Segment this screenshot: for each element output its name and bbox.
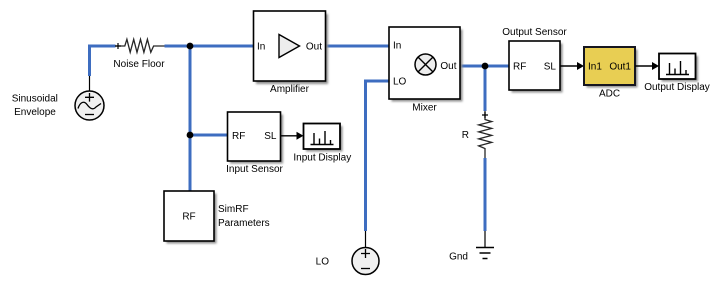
label R bbox=[462, 130, 469, 141]
wire main vertical to SimRF bbox=[189, 46, 192, 191]
source LO bbox=[352, 248, 379, 275]
svg-text:Output Display: Output Display bbox=[644, 82, 710, 93]
svg-text:Out1: Out1 bbox=[609, 62, 631, 73]
label Input Display bbox=[293, 152, 351, 163]
svg-text:RF: RF bbox=[182, 212, 195, 223]
op-amp block Amplifier bbox=[254, 11, 329, 84]
wire LO source to mixer LO bbox=[366, 81, 390, 248]
wire junction to Input Sensor RF bbox=[190, 134, 228, 137]
svg-text:LO: LO bbox=[393, 77, 407, 88]
wire Input Sensor SL to Input Display bbox=[281, 132, 304, 140]
node junction at noise floor output bbox=[187, 43, 194, 50]
resistor R bbox=[479, 111, 492, 158]
svg-text:Mixer: Mixer bbox=[412, 103, 437, 114]
svg-text:SL: SL bbox=[264, 131, 277, 142]
svg-text:ADC: ADC bbox=[599, 89, 620, 100]
wire noise floor to amplifier In bbox=[165, 45, 254, 48]
node junction at input sensor tap bbox=[187, 132, 194, 139]
svg-text:In: In bbox=[393, 41, 401, 52]
label Mixer bbox=[412, 103, 437, 114]
label Gnd bbox=[449, 252, 468, 263]
wire R to Gnd bbox=[484, 158, 487, 247]
wire ADC Out1 to Output Display bbox=[635, 62, 659, 70]
svg-text:LO: LO bbox=[316, 257, 330, 268]
source V1 Sinusoidal Envelope bbox=[75, 76, 104, 120]
svg-text:RF: RF bbox=[513, 62, 526, 73]
svg-text:RF: RF bbox=[232, 131, 245, 142]
label Sinusoidal Envelope bbox=[12, 93, 58, 118]
svg-text:Out: Out bbox=[440, 61, 456, 72]
svg-text:Input Display: Input Display bbox=[293, 152, 351, 163]
label Output Sensor bbox=[502, 27, 567, 38]
label Input Sensor bbox=[226, 164, 283, 175]
svg-text:Gnd: Gnd bbox=[449, 252, 468, 263]
wire amplifier Out to mixer In bbox=[326, 45, 390, 48]
svg-text:Noise Floor: Noise Floor bbox=[113, 59, 165, 70]
svg-text:SL: SL bbox=[544, 62, 557, 73]
mixer U1 bbox=[389, 27, 463, 102]
svg-text:Sinusoidal: Sinusoidal bbox=[12, 93, 58, 104]
scope block Output Display bbox=[659, 54, 698, 82]
svg-text:R: R bbox=[462, 130, 469, 141]
label Amplifier bbox=[270, 84, 310, 95]
svg-text:Output Sensor: Output Sensor bbox=[502, 27, 567, 38]
svg-text:In1: In1 bbox=[588, 62, 602, 73]
block Input Sensor bbox=[228, 112, 284, 164]
ground Gnd bbox=[476, 248, 494, 259]
label SimRF Parameters bbox=[218, 204, 270, 229]
resistor Noise Floor bbox=[115, 39, 165, 52]
block ADC bbox=[584, 47, 638, 88]
svg-text:Input Sensor: Input Sensor bbox=[226, 164, 283, 175]
block Output Sensor bbox=[509, 41, 563, 93]
label Noise Floor bbox=[113, 59, 165, 70]
node junction at mixer output bbox=[482, 63, 489, 70]
wire mixer Out to Output Sensor RF bbox=[460, 65, 509, 68]
scope block Input Display bbox=[304, 124, 343, 152]
svg-text:Parameters: Parameters bbox=[218, 218, 270, 229]
label Output Display bbox=[644, 82, 710, 93]
block SimRF Parameters bbox=[164, 191, 217, 244]
svg-text:SimRF: SimRF bbox=[218, 204, 249, 215]
svg-text:In: In bbox=[257, 42, 265, 53]
wire junction down to R bbox=[484, 66, 487, 111]
wire source corner to noise floor bbox=[90, 46, 116, 76]
svg-text:Envelope: Envelope bbox=[14, 107, 56, 118]
label ADC bbox=[599, 89, 620, 100]
wire Output Sensor SL to ADC In1 bbox=[560, 62, 584, 70]
label LO bbox=[316, 257, 330, 268]
svg-text:Out: Out bbox=[306, 42, 322, 53]
svg-text:Amplifier: Amplifier bbox=[270, 84, 310, 95]
